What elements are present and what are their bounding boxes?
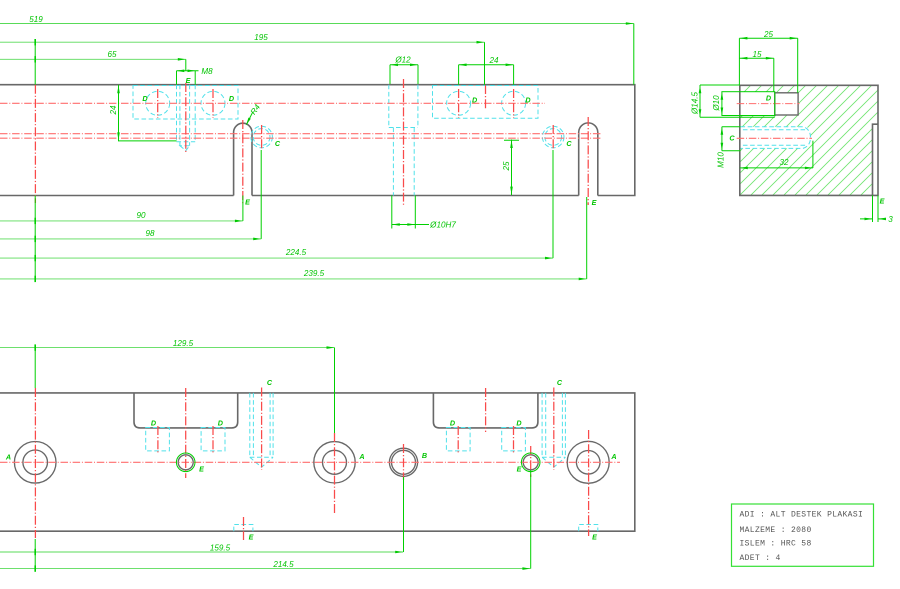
svg-text:D: D (766, 94, 771, 103)
svg-text:Ø10: Ø10 (712, 95, 721, 112)
svg-text:15: 15 (752, 50, 762, 59)
svg-text:D: D (525, 96, 530, 105)
svg-text:D: D (450, 419, 455, 428)
svg-text:A: A (610, 452, 616, 461)
svg-text:3: 3 (888, 215, 893, 224)
svg-text:65: 65 (107, 50, 117, 59)
svg-text:24: 24 (109, 105, 118, 116)
svg-text:25: 25 (502, 161, 511, 172)
svg-text:D: D (142, 94, 147, 103)
svg-text:239.5: 239.5 (303, 269, 325, 278)
svg-text:214.5: 214.5 (272, 560, 294, 569)
svg-text:ADET : 4: ADET : 4 (740, 554, 781, 563)
svg-text:E: E (880, 197, 885, 206)
svg-text:ADI : ALT DESTEK PLAKASI: ADI : ALT DESTEK PLAKASI (740, 511, 864, 520)
svg-text:D: D (151, 419, 156, 428)
svg-text:M8: M8 (201, 67, 213, 76)
svg-text:C: C (566, 139, 572, 148)
svg-text:MALZEME : 2080: MALZEME : 2080 (740, 526, 812, 535)
svg-text:D: D (229, 94, 234, 103)
svg-text:D: D (218, 419, 223, 428)
svg-text:M10: M10 (717, 152, 726, 168)
svg-text:C: C (275, 139, 281, 148)
svg-text:D: D (516, 419, 521, 428)
svg-text:129.5: 129.5 (173, 339, 194, 348)
svg-text:B: B (422, 451, 427, 460)
svg-text:224.5: 224.5 (285, 248, 307, 257)
svg-text:E: E (199, 465, 204, 474)
svg-text:E: E (517, 465, 522, 474)
svg-text:E: E (249, 533, 254, 542)
svg-text:24: 24 (488, 56, 499, 65)
svg-text:Ø14.5: Ø14.5 (691, 91, 700, 115)
svg-text:E: E (592, 533, 597, 542)
svg-text:159.5: 159.5 (210, 544, 231, 553)
svg-text:25: 25 (763, 30, 774, 39)
svg-text:519: 519 (29, 15, 43, 24)
svg-text:Ø10H7: Ø10H7 (429, 221, 456, 230)
svg-text:Ø12: Ø12 (394, 56, 411, 65)
svg-text:ISLEM : HRC 58: ISLEM : HRC 58 (740, 539, 812, 548)
svg-text:R4: R4 (249, 102, 263, 116)
svg-text:E: E (592, 198, 597, 207)
svg-text:90: 90 (136, 211, 146, 220)
svg-text:C: C (267, 378, 273, 387)
svg-text:195: 195 (254, 33, 268, 42)
svg-text:D: D (472, 96, 477, 105)
svg-text:E: E (186, 76, 191, 85)
svg-text:C: C (557, 378, 563, 387)
svg-text:98: 98 (145, 229, 155, 238)
svg-text:A: A (5, 453, 11, 462)
svg-text:A: A (358, 452, 364, 461)
svg-text:32: 32 (779, 158, 789, 167)
svg-text:E: E (245, 198, 250, 207)
svg-text:C: C (729, 134, 735, 143)
